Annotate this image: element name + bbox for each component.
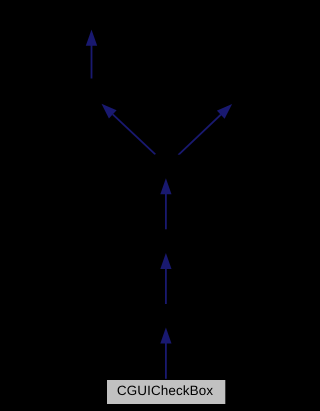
- node IReferenceCounted (invisible box, row 1): [25, 5, 158, 31]
- node IGUIElement (invisible box, row 3): [106, 155, 227, 179]
- arrow IAttributeExchangingObject -> IReferenceCounted: [86, 30, 97, 80]
- arrow CGUICheckBox(row5) -> IGUICheckBox: [160, 253, 171, 304]
- node row5 intermediate base class (invisible box): [103, 304, 229, 328]
- arrow IGUIElement -> IEventReceiver (diagonal up-right): [178, 104, 232, 155]
- arrow CGUICheckBox -> row5: [160, 328, 171, 379]
- node CGUICheckBox (current class, gray box): [107, 380, 225, 404]
- arrow IGUICheckBox -> IGUIElement: [160, 178, 171, 229]
- arrow IGUIElement -> IAttributeExchangingObject (diagonal up-left): [102, 104, 156, 155]
- node IAttributeExchangingObject (invisible box, row 2 left): [4, 79, 155, 105]
- node IEventReceiver (invisible box, row 2 right): [175, 79, 289, 105]
- node IGUICheckBox (invisible box, row 4): [103, 229, 229, 253]
